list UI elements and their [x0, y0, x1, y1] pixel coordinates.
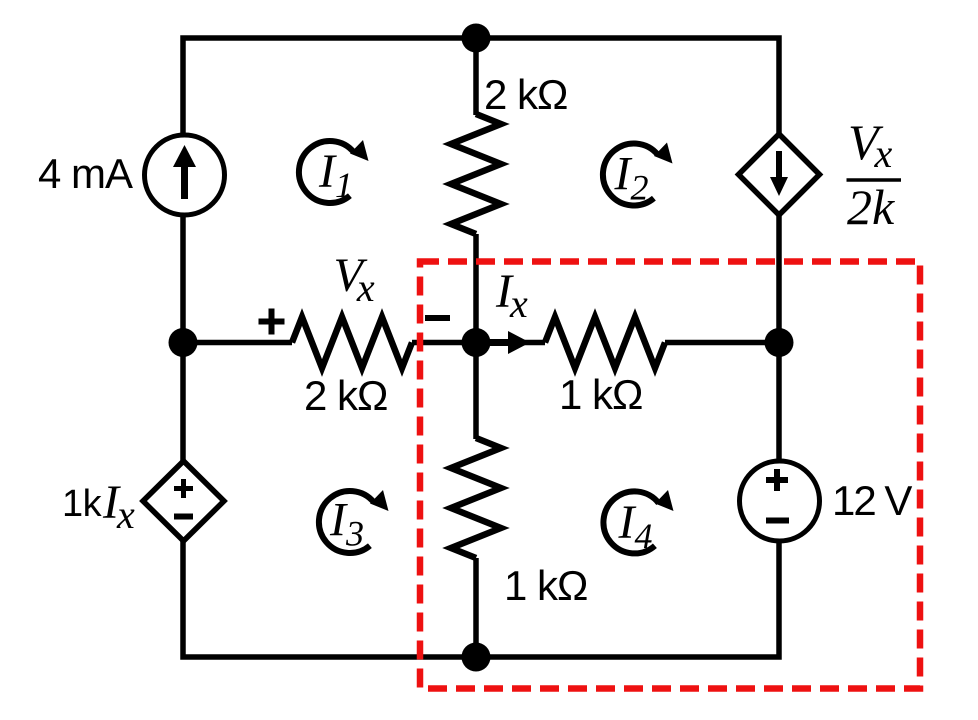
- dependent current source diamond Vx/2k: [739, 134, 820, 215]
- svg-text:I4: I4: [618, 496, 653, 556]
- plus sign inside diamond: [174, 479, 193, 498]
- minus sign inside diamond: [174, 514, 193, 520]
- wire middle horizontal right: [665, 340, 779, 346]
- wire middle horizontal center: [412, 340, 476, 346]
- svg-text:Ix: Ix: [102, 476, 135, 537]
- minus sign Vx: [425, 315, 450, 321]
- svg-text:Vx: Vx: [334, 249, 375, 310]
- red dashed supermesh boundary: [420, 262, 920, 689]
- wire from center node to 1k resistor: [476, 340, 545, 346]
- svg-text:1k: 1k: [62, 483, 103, 525]
- svg-text:1 kΩ: 1 kΩ: [559, 371, 642, 418]
- current source 4mA arrow up: [181, 165, 188, 199]
- svg-text:I3: I3: [329, 494, 364, 554]
- mesh loop I3 arrowhead: [370, 490, 389, 511]
- wire center vertical top: [473, 38, 479, 115]
- mesh loop I2 arc: [603, 143, 658, 205]
- wire center vertical bottom: [473, 558, 479, 657]
- wire middle horizontal left: [183, 340, 292, 346]
- mesh loop I4 arrowhead: [655, 490, 674, 511]
- node dot right middle: [765, 328, 794, 357]
- node dot bottom center: [462, 643, 491, 672]
- mesh loop I4 arc: [603, 491, 658, 553]
- plus sign Vx: [259, 309, 285, 335]
- wire outer loop top: left wire upper + top wire + right wire upper: [183, 38, 779, 135]
- svg-text:Ix: Ix: [495, 265, 528, 326]
- resistor 1k vertical zigzag: [451, 438, 501, 558]
- dependent source down arrow: [776, 151, 782, 179]
- plus sign inside 12V: [766, 469, 788, 491]
- mesh loop I2 arrowhead: [654, 143, 673, 164]
- wire right middle segment: [776, 215, 782, 462]
- minus sign inside 12V: [766, 518, 789, 524]
- node dot center: [462, 328, 491, 357]
- wire left middle segment: [180, 215, 186, 462]
- node dot left middle: [169, 328, 198, 357]
- node dot top center: [462, 24, 491, 53]
- resistor 2k vertical zigzag: [451, 114, 501, 234]
- mesh loop I1 arc: [299, 141, 354, 203]
- wire center vertical middle: [473, 234, 479, 343]
- Ix current arrow: [476, 339, 513, 346]
- mesh loop I1 arrowhead: [350, 140, 369, 161]
- resistor 1k horizontal zigzag: [545, 317, 665, 368]
- svg-text:I2: I2: [614, 148, 649, 208]
- resistor R-Vx 2k horizontal zigzag: [292, 317, 412, 368]
- svg-text:Vx: Vx: [848, 114, 893, 176]
- voltage source 12V circle: [740, 461, 820, 541]
- wire center vertical below node: [473, 343, 479, 440]
- mesh loop I3 arc: [319, 491, 374, 553]
- svg-text:2 kΩ: 2 kΩ: [304, 372, 387, 419]
- wire outer loop bottom: left wire lower + bottom wire + right wire lower: [183, 541, 779, 657]
- dependent voltage source diamond 1kIx: [143, 461, 224, 541]
- current source 4mA circle: [145, 135, 225, 215]
- svg-text:2 kΩ: 2 kΩ: [484, 71, 567, 118]
- svg-text:2k: 2k: [847, 179, 895, 235]
- label Vx/2k fraction bar: [847, 178, 902, 181]
- svg-text:12 V: 12 V: [832, 477, 912, 524]
- svg-text:4 mA: 4 mA: [38, 150, 133, 197]
- svg-text:1 kΩ: 1 kΩ: [504, 562, 587, 609]
- svg-text:I1: I1: [318, 145, 353, 205]
